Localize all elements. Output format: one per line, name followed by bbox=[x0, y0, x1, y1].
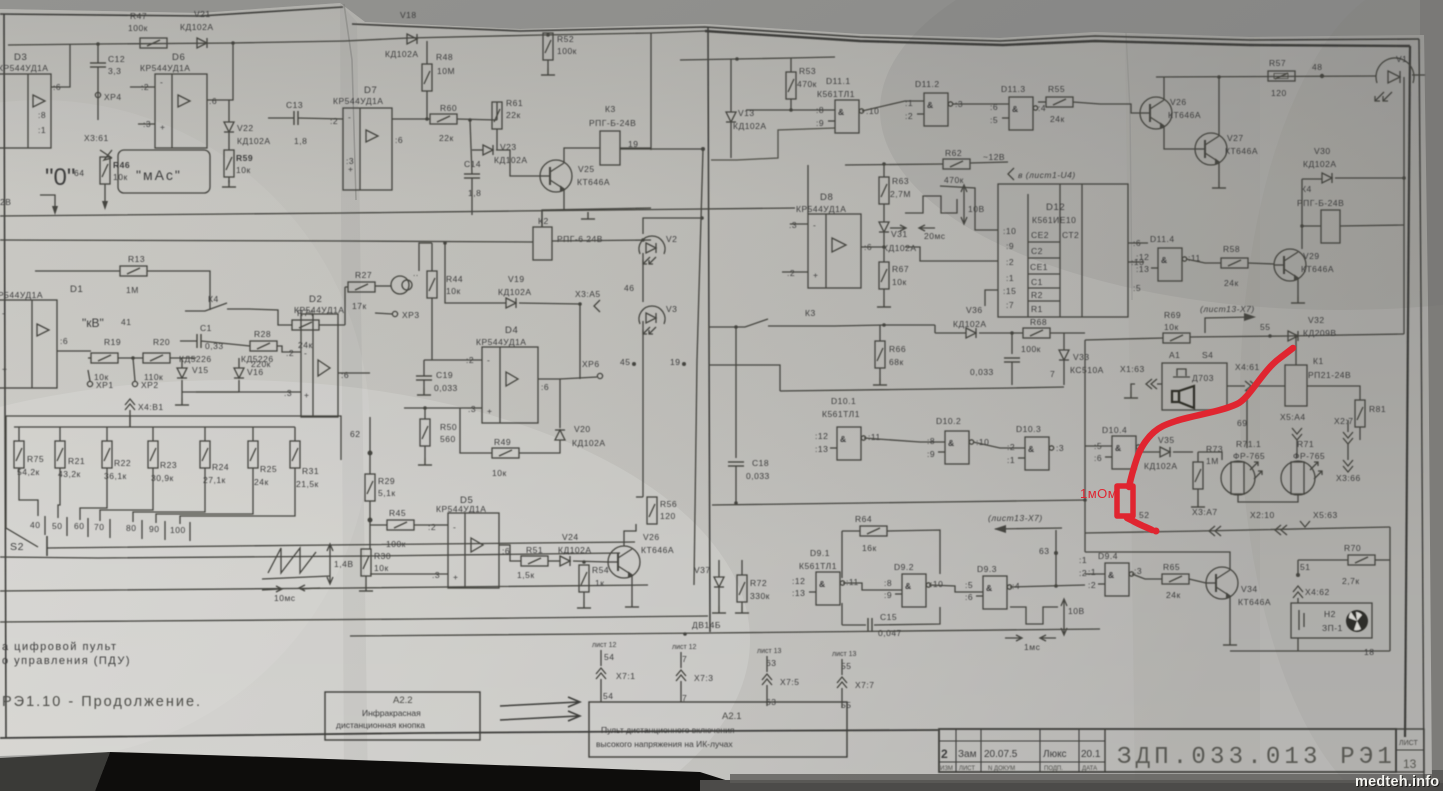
resistor R30 bbox=[361, 549, 391, 576]
paper fold crease left bbox=[344, 4, 356, 200]
svg-text:XP1: XP1 bbox=[96, 380, 114, 390]
wire R49 right bbox=[519, 440, 560, 453]
svg-text:100к: 100к bbox=[1021, 344, 1041, 354]
title block bbox=[939, 729, 1424, 772]
svg-text:52: 52 bbox=[1139, 510, 1149, 520]
svg-text:51: 51 bbox=[1300, 562, 1310, 572]
D12 right pins bbox=[1128, 238, 1148, 293]
svg-text:470к: 470к bbox=[944, 175, 964, 185]
svg-text:КД102А: КД102А bbox=[180, 22, 214, 32]
svg-text:-: - bbox=[487, 355, 490, 365]
resistor R51 bbox=[499, 545, 548, 580]
svg-text:..: .. bbox=[413, 268, 419, 278]
ground R52 bbox=[541, 60, 555, 75]
capacitor C19 bbox=[416, 360, 458, 393]
svg-text:"кВ": "кВ" bbox=[82, 316, 104, 330]
paper bottom-left bright zone bbox=[0, 380, 750, 791]
wire D11.2 out bbox=[952, 103, 1009, 105]
svg-text:C1: C1 bbox=[1031, 277, 1043, 287]
resistor R54 bbox=[579, 565, 609, 601]
svg-text:&: & bbox=[1108, 570, 1115, 580]
ground V34 bbox=[1223, 638, 1237, 645]
svg-text:X2:7: X2:7 bbox=[1334, 416, 1354, 426]
svg-text:10к: 10к bbox=[374, 563, 389, 573]
svg-text:C14: C14 bbox=[464, 159, 481, 169]
svg-text:лист 13: лист 13 bbox=[832, 651, 857, 658]
svg-text:R28: R28 bbox=[254, 329, 271, 339]
zener V33 bbox=[1050, 333, 1104, 385]
resistor R69 bbox=[1163, 310, 1190, 343]
wire mid rail503 bbox=[712, 500, 1085, 505]
wire R20 out bbox=[170, 357, 196, 359]
resistor R23 bbox=[148, 427, 177, 483]
gate D9.4 bbox=[1085, 551, 1142, 596]
resistor R72 bbox=[735, 560, 770, 613]
op-amp D2 bbox=[284, 294, 349, 417]
resistor R50 bbox=[420, 408, 457, 458]
node C14 bbox=[468, 118, 472, 122]
svg-text:R45: R45 bbox=[389, 508, 406, 518]
wire D10.2 out bbox=[973, 442, 1025, 448]
svg-text:-: - bbox=[304, 348, 307, 358]
svg-text:&: & bbox=[838, 107, 845, 117]
ground V15 bbox=[175, 380, 239, 405]
svg-text:10к: 10к bbox=[892, 277, 907, 287]
ground V27 bbox=[1212, 181, 1226, 188]
svg-text::2: :2 bbox=[905, 111, 913, 121]
svg-text:К3: К3 bbox=[805, 308, 816, 318]
wire V1 to frame bbox=[1412, 74, 1425, 76]
resistor R63 bbox=[879, 176, 911, 204]
wire R65 out bbox=[1189, 579, 1206, 583]
ground R50 bbox=[418, 458, 432, 465]
node V13 bbox=[735, 57, 739, 61]
node R63 top bbox=[882, 162, 886, 166]
svg-text:КС510А: КС510А bbox=[1070, 365, 1104, 375]
wire D8 pin3 bbox=[790, 223, 808, 225]
svg-text:о управления (ПДУ): о управления (ПДУ) bbox=[2, 655, 131, 667]
LED V1 bbox=[1375, 54, 1414, 101]
svg-text:V34: V34 bbox=[1241, 584, 1258, 594]
svg-text:R25: R25 bbox=[260, 464, 277, 474]
svg-text::13: :13 bbox=[1136, 264, 1149, 274]
svg-text:V33: V33 bbox=[1073, 352, 1090, 362]
svg-text:КТ646А: КТ646А bbox=[577, 177, 610, 187]
wire top rail right bbox=[1156, 76, 1376, 77]
ground C19 bbox=[417, 388, 431, 395]
connector stem X7:1 bbox=[592, 642, 636, 702]
capacitor C15 bbox=[842, 603, 940, 638]
wire D1 out bbox=[57, 350, 91, 352]
wire R62 out bbox=[970, 162, 1008, 163]
svg-text:X3:61: X3:61 bbox=[84, 133, 109, 143]
wire R60 to R61 bbox=[457, 119, 497, 120]
wire K1 right bbox=[1307, 386, 1360, 400]
svg-text:46: 46 bbox=[624, 283, 634, 293]
box H2 bbox=[1291, 603, 1372, 638]
svg-text:+: + bbox=[487, 406, 492, 416]
svg-text:лист 13: лист 13 bbox=[757, 648, 782, 655]
svg-text:10к: 10к bbox=[113, 172, 128, 182]
svg-text:1к: 1к bbox=[595, 578, 604, 588]
connector stem X7:3 bbox=[672, 644, 714, 703]
svg-text:R30: R30 bbox=[374, 551, 391, 561]
svg-text:V24: V24 bbox=[562, 532, 579, 542]
resistor R13 bbox=[120, 254, 147, 295]
svg-text:&: & bbox=[1161, 255, 1168, 265]
svg-text:R50: R50 bbox=[440, 422, 457, 432]
svg-text:N ДОКУМ: N ДОКУМ bbox=[988, 766, 1015, 772]
svg-text:КД5226: КД5226 bbox=[241, 354, 274, 364]
wire R64 loop top bbox=[842, 530, 860, 532]
relay K1 bbox=[1285, 356, 1351, 406]
node K2 bbox=[443, 241, 447, 245]
paper fold crease right bbox=[1126, 33, 1132, 300]
diode V23 bbox=[472, 142, 540, 176]
svg-text:100: 100 bbox=[170, 525, 186, 535]
svg-text:D8: D8 bbox=[820, 192, 833, 203]
label 48 bbox=[1312, 62, 1324, 78]
resistor R81 bbox=[1355, 400, 1386, 440]
svg-text::1: :1 bbox=[1088, 567, 1096, 577]
svg-text:К2: К2 bbox=[538, 216, 549, 226]
svg-text:470к: 470к bbox=[797, 79, 817, 89]
svg-text:D11.2: D11.2 bbox=[915, 79, 940, 89]
svg-text:&: & bbox=[905, 581, 912, 591]
svg-text:60: 60 bbox=[74, 521, 84, 531]
resistor R27 bbox=[345, 270, 375, 325]
resistor R58 bbox=[1221, 244, 1248, 288]
svg-text:R69: R69 bbox=[1164, 310, 1181, 320]
svg-text:X4:61: X4:61 bbox=[1235, 362, 1260, 372]
svg-text:2: 2 bbox=[941, 747, 948, 761]
svg-text:R23: R23 bbox=[160, 460, 177, 470]
svg-text:С18: С18 bbox=[752, 458, 769, 468]
resistor R75 bbox=[14, 427, 44, 477]
node R48 bbox=[425, 117, 429, 121]
diode V18 bbox=[385, 10, 419, 59]
node K4 left bbox=[1300, 224, 1304, 228]
svg-text::6: :6 bbox=[209, 96, 217, 106]
svg-text:К1: К1 bbox=[1313, 356, 1324, 366]
wire D8 top bbox=[807, 165, 809, 214]
svg-text:10к: 10к bbox=[236, 165, 251, 175]
connector X3:A5 bbox=[575, 289, 601, 379]
svg-text::6: :6 bbox=[502, 546, 510, 556]
svg-text:R52: R52 bbox=[557, 34, 574, 44]
gate D11.1 bbox=[816, 76, 879, 133]
svg-text:XP4: XP4 bbox=[104, 92, 122, 102]
svg-text:13: 13 bbox=[1403, 757, 1417, 771]
wire right top rail bbox=[680, 57, 835, 60]
svg-text:ЛИСТ: ЛИСТ bbox=[1399, 740, 1418, 747]
gate D9.1 bbox=[792, 548, 859, 605]
svg-text:V25: V25 bbox=[578, 164, 595, 174]
svg-text:24к: 24к bbox=[1166, 590, 1181, 600]
svg-text:80: 80 bbox=[126, 523, 136, 533]
svg-text:1,8: 1,8 bbox=[468, 188, 481, 198]
node R52 bbox=[546, 33, 550, 37]
svg-text:R63: R63 bbox=[892, 176, 909, 186]
svg-text:R75: R75 bbox=[27, 454, 44, 464]
transistor V26a bbox=[1140, 97, 1201, 129]
relay K4b bbox=[1297, 184, 1404, 243]
svg-text::3: :3 bbox=[284, 388, 292, 398]
svg-text:S2: S2 bbox=[10, 541, 24, 553]
resistor R29 bbox=[365, 474, 396, 501]
sheet frame outer right edge bbox=[1419, 39, 1424, 780]
counter D12 bbox=[998, 184, 1128, 317]
wire K3 to bus bbox=[620, 147, 651, 149]
capacitor C1 bbox=[180, 323, 250, 351]
svg-text:КД209В: КД209В bbox=[1303, 328, 1337, 338]
svg-text:19: 19 bbox=[628, 139, 638, 149]
svg-text::1: :1 bbox=[38, 125, 46, 135]
wire V27 emitter bbox=[1218, 162, 1220, 181]
wire right vert bbox=[1403, 77, 1405, 178]
svg-text:К3: К3 bbox=[605, 104, 616, 114]
wire D11.1 out bbox=[862, 101, 924, 111]
svg-text::3: :3 bbox=[1056, 443, 1064, 453]
sheet frame top-right outer bbox=[352, 24, 1419, 41]
svg-text:69: 69 bbox=[1237, 418, 1247, 428]
svg-text:КР544УД1А: КР544УД1А bbox=[140, 63, 190, 73]
connector X2:10 bbox=[1250, 510, 1287, 535]
ground R67 bbox=[877, 300, 891, 307]
wire loop upper bbox=[711, 128, 835, 160]
capacitor C14 bbox=[464, 120, 481, 215]
svg-text:R56: R56 bbox=[660, 499, 677, 509]
svg-text:C19: C19 bbox=[436, 370, 453, 380]
svg-text:КР544УД1А: КР544УД1А bbox=[476, 337, 526, 347]
wire D9.4 out bbox=[1132, 574, 1162, 579]
node XP2 bbox=[131, 356, 135, 360]
svg-text:КД102А: КД102А bbox=[953, 319, 987, 329]
svg-text:V27: V27 bbox=[1227, 133, 1244, 143]
resistor R25 bbox=[248, 427, 277, 487]
svg-text:-: - bbox=[160, 77, 163, 87]
svg-text::10: :10 bbox=[1003, 226, 1016, 236]
wire R13 rail bbox=[35, 270, 120, 272]
resistor R19 bbox=[88, 337, 121, 382]
svg-text::8: :8 bbox=[38, 110, 46, 120]
svg-text:ИЗМ: ИЗМ bbox=[940, 766, 953, 772]
svg-text:R13: R13 bbox=[128, 254, 145, 264]
svg-text:2,7М: 2,7М bbox=[890, 189, 911, 199]
box A1 S4 bbox=[1162, 350, 1227, 410]
svg-text:R71: R71 bbox=[1297, 439, 1314, 449]
svg-text::9: :9 bbox=[816, 118, 824, 128]
svg-text:560: 560 bbox=[440, 434, 456, 444]
svg-text:10В: 10В bbox=[1068, 606, 1085, 616]
connector X3:66 bbox=[1336, 460, 1361, 483]
svg-text::5: :5 bbox=[1133, 283, 1141, 293]
svg-text:1М: 1М bbox=[126, 285, 139, 295]
svg-text:&: & bbox=[1115, 443, 1122, 453]
gate D10.4 bbox=[1085, 425, 1141, 469]
svg-text:КТ646А: КТ646А bbox=[1168, 110, 1201, 120]
svg-text:-: - bbox=[348, 112, 351, 122]
resistor R62 bbox=[943, 148, 970, 185]
wire 51 node bbox=[1297, 560, 1299, 575]
svg-text:X3:А5: X3:А5 bbox=[575, 289, 601, 299]
long wire bottom rail bbox=[0, 616, 708, 622]
svg-text:РПГ-Б-24В: РПГ-Б-24В bbox=[1297, 198, 1344, 208]
node R54 bbox=[582, 560, 586, 564]
wire bank drop bbox=[129, 416, 131, 427]
label 19 bbox=[628, 139, 705, 220]
svg-text::4: :4 bbox=[1038, 103, 1046, 113]
D12 pin labels bbox=[1003, 226, 1016, 310]
svg-text:41: 41 bbox=[121, 317, 131, 327]
svg-text:КД102А: КД102А bbox=[494, 155, 528, 165]
svg-text:R64: R64 bbox=[855, 514, 872, 524]
svg-text:дистанционная кнопка: дистанционная кнопка bbox=[336, 720, 425, 730]
svg-text:1,4В: 1,4В bbox=[334, 559, 354, 569]
transistor V25 bbox=[540, 160, 610, 192]
svg-text:0,047: 0,047 bbox=[878, 628, 902, 638]
svg-text:19: 19 bbox=[670, 357, 680, 367]
svg-text::6: :6 bbox=[395, 135, 403, 145]
svg-text:Люкс: Люкс bbox=[1043, 749, 1067, 760]
svg-text:(лист13-Х7): (лист13-Х7) bbox=[1200, 304, 1255, 314]
svg-text:16к: 16к bbox=[862, 543, 877, 553]
wire D9.3 out bbox=[1010, 585, 1085, 587]
svg-text:СТ2: СТ2 bbox=[1062, 230, 1079, 240]
svg-text:-: - bbox=[453, 522, 456, 532]
wire K1 top bbox=[1295, 336, 1297, 365]
node C18 bottom bbox=[734, 501, 738, 505]
svg-text:2,7к: 2,7к bbox=[1342, 576, 1360, 586]
connector list13-X7b bbox=[988, 513, 1062, 533]
svg-text:54: 54 bbox=[604, 652, 614, 662]
wire D6 pin3 bbox=[138, 123, 155, 125]
svg-text:+: + bbox=[160, 122, 165, 132]
svg-text:10М: 10М bbox=[437, 66, 455, 76]
bank tap wires bbox=[19, 468, 295, 524]
svg-text:V18: V18 bbox=[400, 10, 417, 20]
tap labels bbox=[30, 516, 190, 541]
svg-text::2: :2 bbox=[787, 268, 795, 278]
svg-text::1: :1 bbox=[1007, 455, 1015, 465]
wire rail 530 bbox=[1085, 527, 1390, 533]
op-amp D4 bbox=[466, 325, 549, 423]
diode V20 bbox=[555, 424, 606, 448]
resistor R24 bbox=[200, 427, 229, 485]
resistor R52 bbox=[543, 33, 577, 60]
label 63b bbox=[1039, 546, 1058, 556]
ground R54 bbox=[577, 601, 591, 608]
svg-text:70: 70 bbox=[94, 522, 104, 532]
svg-text:К561ТЛ1: К561ТЛ1 bbox=[799, 561, 837, 571]
connector XP2 bbox=[132, 358, 158, 390]
svg-text:КД102А: КД102А bbox=[237, 136, 271, 146]
svg-text:5,1к: 5,1к bbox=[378, 488, 396, 498]
title block texts bbox=[940, 740, 1418, 772]
stamp columns left table bbox=[955, 729, 957, 772]
wire C18 top bbox=[735, 328, 737, 430]
svg-text::15: :15 bbox=[1003, 286, 1016, 296]
svg-text:КТ646А: КТ646А bbox=[1301, 264, 1334, 274]
svg-text:КР544УД1А: КР544УД1А bbox=[0, 63, 48, 73]
wire K2 rail right bbox=[552, 240, 651, 241]
svg-text:D7: D7 bbox=[364, 85, 377, 96]
svg-text:100к: 100к bbox=[386, 539, 406, 549]
svg-text:V19: V19 bbox=[508, 274, 525, 284]
svg-text:R46: R46 bbox=[113, 160, 130, 170]
svg-text::9: :9 bbox=[1006, 241, 1014, 251]
svg-text:0,033: 0,033 bbox=[970, 367, 994, 377]
resistor R70 bbox=[1298, 543, 1390, 586]
svg-text:V3: V3 bbox=[666, 304, 677, 314]
capacitor C20 bbox=[970, 333, 1020, 385]
resistor R20 bbox=[143, 337, 170, 382]
svg-text:10В: 10В bbox=[968, 204, 985, 214]
resistor R44 bbox=[427, 243, 463, 360]
svg-text:&: & bbox=[927, 100, 934, 110]
resistor R66 bbox=[875, 325, 906, 378]
connector X3:61 bbox=[84, 133, 112, 160]
svg-text:К561ИЕ10: К561ИЕ10 bbox=[1032, 215, 1076, 225]
long wire lower-left bbox=[0, 585, 648, 591]
red resistor 1MOhm bbox=[1117, 486, 1133, 516]
diode V19 bbox=[498, 274, 532, 308]
wire D3 out bbox=[51, 44, 70, 87]
wire left stub bbox=[40, 195, 55, 210]
svg-text:R68: R68 bbox=[1030, 317, 1047, 327]
transistor V34 bbox=[1206, 567, 1271, 607]
op-amp D1 bbox=[0, 284, 83, 388]
wire V25 collector bbox=[564, 148, 600, 163]
svg-text::3: :3 bbox=[468, 404, 476, 414]
svg-text:medteh.info: medteh.info bbox=[1355, 774, 1439, 790]
red annotation bbox=[1117, 348, 1293, 535]
svg-text:21,5к: 21,5к bbox=[296, 479, 319, 489]
sheet frame right vertical bbox=[1405, 46, 1410, 737]
resistor R61 bbox=[492, 98, 523, 150]
svg-text:R55: R55 bbox=[1048, 84, 1065, 94]
svg-text:R61: R61 bbox=[506, 98, 523, 108]
resistor R57 bbox=[1268, 58, 1295, 98]
diode V30 bbox=[1302, 146, 1404, 183]
svg-text:24к: 24к bbox=[1050, 114, 1065, 124]
svg-text:КД102А: КД102А bbox=[1303, 159, 1337, 169]
wire V27 collector bbox=[1218, 77, 1220, 136]
diode V31 bbox=[879, 204, 917, 262]
svg-text:C13: C13 bbox=[286, 100, 303, 110]
svg-text:Н2: Н2 bbox=[1324, 609, 1336, 619]
svg-text:43,2к: 43,2к bbox=[58, 469, 81, 479]
wire V30-K4 left bbox=[1301, 179, 1303, 249]
svg-text:R44: R44 bbox=[446, 274, 463, 284]
svg-text::10: :10 bbox=[930, 579, 943, 589]
svg-text:2В: 2В bbox=[0, 197, 11, 207]
svg-text:&: & bbox=[840, 434, 847, 444]
svg-text:ЗП-1: ЗП-1 bbox=[1322, 623, 1343, 633]
ground R59 bbox=[222, 177, 236, 187]
svg-text:V32: V32 bbox=[1308, 315, 1325, 325]
medteh.info watermark bbox=[1355, 774, 1440, 791]
svg-text:V15: V15 bbox=[192, 365, 209, 375]
svg-text:55: 55 bbox=[1260, 322, 1270, 332]
node K3b bbox=[882, 323, 886, 327]
background right strip bbox=[1420, 0, 1443, 791]
svg-text:7: 7 bbox=[1050, 369, 1055, 379]
svg-text:V2: V2 bbox=[666, 234, 677, 244]
diode V35 bbox=[1144, 435, 1193, 471]
svg-text::11: :11 bbox=[868, 432, 881, 442]
resistor R46 bbox=[100, 157, 130, 210]
